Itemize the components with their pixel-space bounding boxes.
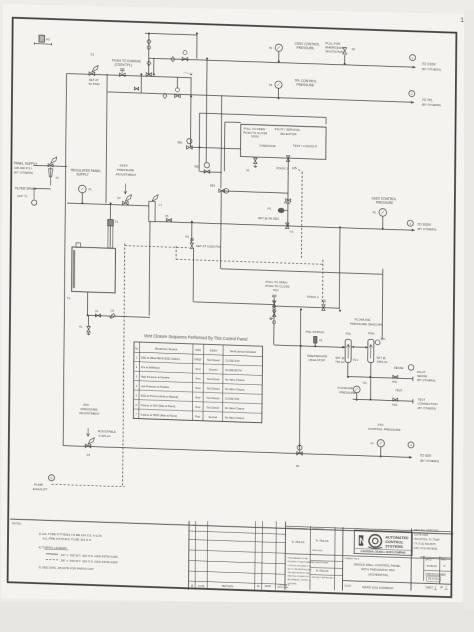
filter F1 xyxy=(108,219,114,226)
svg-text:FIRST: FIRST xyxy=(194,359,202,362)
sensor PSL xyxy=(345,339,351,362)
valve AN2 xyxy=(393,398,398,401)
gauge P1 xyxy=(78,185,86,193)
wire sensor crossover xyxy=(351,346,368,349)
svg-text:PRESSURE: PRESSURE xyxy=(296,83,314,88)
pushbutton valve S1 xyxy=(120,73,126,77)
svg-text:TX (713) 460-9575: TX (713) 460-9575 xyxy=(414,542,436,547)
svg-text:(BY OTHERS): (BY OTHERS) xyxy=(418,406,437,411)
svg-text:BY: BY xyxy=(257,586,261,588)
svg-text:(BY OTHERS): (BY OTHERS) xyxy=(417,378,436,383)
svg-text:Not Closed: Not Closed xyxy=(207,406,220,409)
wire tank outlet xyxy=(86,292,88,315)
svg-text:C2: C2 xyxy=(117,196,121,200)
svg-text:First: First xyxy=(195,378,200,381)
arrow to SSSV xyxy=(412,229,415,232)
actuator SSV pushpull xyxy=(272,295,276,299)
svg-text:(BY OTHERS): (BY OTHERS) xyxy=(417,227,436,232)
wire S2 stem xyxy=(344,55,346,64)
svg-text:First: First xyxy=(195,416,200,419)
node line3 to stack2 xyxy=(339,226,341,228)
valve S2 emergency pull xyxy=(343,48,347,55)
wire R1 branch to SSV valve xyxy=(194,302,274,305)
valve SSV open xyxy=(272,301,275,307)
svg-text:DATE: DATE xyxy=(198,585,204,588)
actuator SB2 xyxy=(204,162,209,167)
node P7 tap xyxy=(380,455,382,457)
svg-text:1400 psi: 1400 psi xyxy=(376,360,387,364)
svg-text:SENSE: SENSE xyxy=(394,366,404,370)
valve V9 xyxy=(297,452,303,456)
svg-text:TEST: TEST xyxy=(395,388,403,392)
wire sense run drop to PT1 xyxy=(381,269,384,340)
node P2 tap xyxy=(278,60,280,62)
svg-text:PSL: PSL xyxy=(346,331,352,335)
svg-text:Not Closed: Not Closed xyxy=(207,387,220,390)
selector box xyxy=(241,124,327,159)
wire outer loop left drop xyxy=(198,113,201,171)
wire filter F1 tube xyxy=(109,203,111,247)
wire stack2 drop to SSV line xyxy=(299,309,300,453)
adjustment arrow xyxy=(124,183,127,193)
svg-text:(SCHEMATIC): (SCHEMATIC) xyxy=(368,572,388,577)
valve AN1 xyxy=(393,375,398,378)
wire test line xyxy=(353,399,413,401)
svg-text:Second: Second xyxy=(209,369,218,372)
svg-text:HS: HS xyxy=(46,37,50,41)
actuator V9 xyxy=(297,445,302,450)
wire pilot line to PSL xyxy=(274,345,344,347)
svg-text:CLOSE SSV: CLOSE SSV xyxy=(225,398,240,401)
svg-text:PSH: PSH xyxy=(368,331,374,335)
svg-text:C4: C4 xyxy=(87,453,91,457)
regulator C1 xyxy=(89,72,95,76)
valve SSV close xyxy=(273,311,276,317)
svg-text:60 PSIG: 60 PSIG xyxy=(89,82,101,86)
wire PSL bottom drop xyxy=(347,362,349,377)
valve V6 xyxy=(167,218,172,221)
title block xyxy=(309,526,312,590)
svg-text:DRAWN BY:: DRAWN BY: xyxy=(312,527,325,530)
svg-text:CLOSE SSV: CLOSE SSV xyxy=(225,360,240,363)
svg-text:(BY OTHERS): (BY OTHERS) xyxy=(422,103,441,108)
wire regulated supply xyxy=(67,203,149,206)
node P3 tap xyxy=(277,97,279,99)
gauge P7 xyxy=(377,439,384,446)
svg-text:0-325 psi: 0-325 psi xyxy=(98,434,110,438)
svg-text:SB2: SB2 xyxy=(194,164,200,168)
svg-text:SYSTEMS.: SYSTEMS. xyxy=(287,583,297,585)
svg-text:SB3: SB3 xyxy=(210,183,216,187)
svg-text:C5: C5 xyxy=(111,309,115,313)
valve SB3 xyxy=(219,189,225,193)
gauge P3 xyxy=(275,81,282,88)
arrow to SSV xyxy=(409,456,412,459)
svg-text:A1: A1 xyxy=(56,175,60,179)
valve STACK1 xyxy=(286,156,289,162)
ACS logo box xyxy=(354,530,412,555)
wire supply drop to D2 actuator xyxy=(176,77,178,88)
svg-text:SSV: SSV xyxy=(195,348,201,352)
svg-text:700 psi: 700 psi xyxy=(335,360,345,364)
svg-text:6/15/10: 6/15/10 xyxy=(427,564,437,568)
svg-text:CLOSE BOTH: CLOSE BOTH xyxy=(225,369,242,373)
svg-text:No.: No. xyxy=(135,348,139,350)
valve on supply xyxy=(146,73,152,77)
wire line1 to CSSV xyxy=(149,58,415,67)
wire SSV pushpull drop xyxy=(273,299,275,345)
svg-text:SSSV: SSSV xyxy=(210,349,218,353)
svg-text:1: 1 xyxy=(445,586,447,590)
svg-text:INSERVICE: INSERVICE xyxy=(260,144,276,149)
timer H1 xyxy=(278,208,285,213)
wire line3 drop to stack2 line xyxy=(338,227,341,309)
svg-text:A2: A2 xyxy=(79,324,83,328)
svg-text:R. PELAS: R. PELAS xyxy=(292,540,305,544)
revision strip xyxy=(187,521,190,590)
bubble pilot sense xyxy=(408,364,414,370)
wire SB3 drop to sense run xyxy=(220,191,223,269)
svg-text:FAX (713) 460-9638: FAX (713) 460-9638 xyxy=(414,546,438,551)
wire SSV control line xyxy=(64,446,412,458)
svg-text:REV.: REV. xyxy=(441,558,447,561)
wire lineT drop xyxy=(196,33,198,58)
wire supply drop to SB1 line xyxy=(189,77,192,147)
svg-text:TC1: TC1 xyxy=(353,358,359,362)
svg-text:REVISION: REVISION xyxy=(222,586,233,588)
svg-text:SG: SG xyxy=(363,381,367,385)
svg-text:R. PELAS: R. PELAS xyxy=(316,539,329,543)
indicator PSL status xyxy=(314,336,317,343)
relief valve R1 xyxy=(190,243,193,249)
check CO2 xyxy=(163,93,167,98)
connector bubble SSV xyxy=(408,442,414,448)
svg-text:1: 1 xyxy=(460,17,464,24)
wire stack1 drop to line3 xyxy=(287,157,290,226)
svg-text:SSSV: SSSV xyxy=(251,134,259,138)
vent xyxy=(269,317,273,320)
wire PSH bottom drop xyxy=(370,362,372,399)
svg-text:S5: S5 xyxy=(352,47,356,51)
valve D2 xyxy=(175,94,181,98)
vent valve A1 xyxy=(254,158,257,164)
svg-text:ADJUSTMENT: ADJUSTMENT xyxy=(79,411,100,416)
wire L1 drain return xyxy=(148,222,151,316)
svg-text:S4: S4 xyxy=(296,464,300,468)
connector bubble SSSV xyxy=(407,220,413,226)
wire line1 drop xyxy=(153,58,155,74)
regulator C2 xyxy=(122,201,128,205)
svg-text:STACK 1: STACK 1 xyxy=(276,166,288,170)
node S2 tap xyxy=(344,63,346,65)
wire pilot sense line xyxy=(348,377,413,379)
wire wellhead sense run xyxy=(221,269,383,274)
wire R1 stem xyxy=(191,222,193,243)
wire SB3 branch xyxy=(222,191,289,193)
wire inner loop top xyxy=(225,121,241,124)
valve D1 xyxy=(182,57,188,61)
wire PSL-status stem xyxy=(314,343,316,346)
wire panel inlet xyxy=(33,165,67,166)
wire A2 vent stem xyxy=(87,315,89,326)
svg-text:C1: C1 xyxy=(91,53,95,57)
wire line-T header xyxy=(145,33,197,35)
svg-text:SB1: SB1 xyxy=(177,140,183,144)
wire gauge P5 stem xyxy=(382,216,384,228)
wire gauge P7 stem xyxy=(380,447,382,456)
wire gauge P3 stem xyxy=(277,88,279,98)
svg-text:NOTES:: NOTES: xyxy=(12,521,22,525)
svg-text:First: First xyxy=(196,368,201,371)
svg-text:TEST / LOCKOUT: TEST / LOCKOUT xyxy=(293,144,318,149)
svg-text:(BY OTHERS): (BY OTHERS) xyxy=(420,458,439,463)
wire supply header xyxy=(67,73,191,77)
svg-text:SUPPLY: SUPPLY xyxy=(76,173,89,177)
connector bubble CSSV xyxy=(410,55,416,61)
sequence table xyxy=(133,342,262,423)
svg-text:HL: HL xyxy=(319,338,323,342)
tank fill cap xyxy=(76,243,80,248)
valve SB1 xyxy=(187,146,193,150)
svg-text:SSV: SSV xyxy=(377,423,384,427)
check CO4 xyxy=(147,61,151,66)
svg-text:(CSSV/TPL): (CSSV/TPL) xyxy=(115,63,133,68)
wire outer loop top xyxy=(200,113,327,117)
wire line1 drop to SB2 xyxy=(205,59,208,163)
svg-text:ECN APPROVED: ECN APPROVED xyxy=(312,561,329,565)
svg-text:First: First xyxy=(195,397,200,400)
wire SB2 branch xyxy=(200,171,222,174)
svg-text:OF: OF xyxy=(440,586,444,589)
svg-text:CHECKED:: CHECKED: xyxy=(312,550,324,552)
svg-text:R1: R1 xyxy=(186,235,190,239)
bottom band top rule xyxy=(10,519,453,534)
regulator C4 xyxy=(86,428,89,436)
svg-text:STACK 2: STACK 2 xyxy=(307,294,319,298)
svg-text:HIGH-STOP: HIGH-STOP xyxy=(308,358,325,363)
svg-text:T1: T1 xyxy=(67,296,71,300)
svg-text:V6: V6 xyxy=(165,214,169,218)
dashed drop to stack2 xyxy=(321,260,323,304)
svg-text:PRESSURE: PRESSURE xyxy=(339,390,355,395)
svg-text:24240: 24240 xyxy=(264,586,271,588)
wire charge vert B xyxy=(148,33,150,74)
node P5 tap xyxy=(382,228,384,230)
arrow to CSSV xyxy=(413,66,416,69)
tank T1 xyxy=(72,247,116,293)
valve V1 xyxy=(95,314,100,317)
svg-text:First: First xyxy=(195,406,200,409)
valve V3 xyxy=(285,223,288,229)
svg-text:PSL STATUS: PSL STATUS xyxy=(306,330,324,335)
svg-text:V3: V3 xyxy=(290,230,294,234)
pump exhaust bubble xyxy=(49,475,55,481)
arrow to TPL xyxy=(411,101,414,104)
wire line2 drop to SB3 xyxy=(220,95,223,188)
dashed pilot line selector to stack2 xyxy=(295,167,302,171)
svg-text:EXHAUST: EXHAUST xyxy=(33,487,48,491)
wire inner loop drop xyxy=(223,122,225,171)
svg-text:SUITE #100: SUITE #100 xyxy=(414,532,429,536)
svg-text:38,075C: 38,075C xyxy=(428,577,440,581)
valve J2 xyxy=(134,87,138,90)
wire outer loop right corner xyxy=(325,118,327,125)
wire R1 extension drop xyxy=(192,248,194,302)
wire gauge P6 stem xyxy=(356,393,358,400)
svg-text:A1: A1 xyxy=(246,168,250,172)
connector bubble TPL xyxy=(409,90,415,96)
node R1 tap xyxy=(191,221,193,223)
svg-text:PT1: PT1 xyxy=(381,337,386,341)
svg-text:F1: F1 xyxy=(115,220,119,224)
svg-text:First: First xyxy=(195,387,200,390)
check CO1 xyxy=(147,39,151,44)
bubble PT1 xyxy=(375,340,380,345)
svg-text:Second: Second xyxy=(209,416,218,419)
svg-text:V1: V1 xyxy=(95,309,99,313)
node lineT corner xyxy=(196,32,198,34)
svg-text:SHEET: SHEET xyxy=(425,586,433,589)
wire gauge P1 stem xyxy=(81,193,83,204)
svg-text:N: N xyxy=(359,537,365,546)
svg-text:AN1: AN1 xyxy=(392,380,398,384)
svg-text:SSV: SSV xyxy=(273,288,279,292)
svg-text:PRESSURE: PRESSURE xyxy=(376,201,394,206)
valve SB2 xyxy=(204,170,210,174)
svg-text:Not Closed: Not Closed xyxy=(207,397,220,400)
gauge P6 xyxy=(353,386,360,393)
HS station symbol xyxy=(39,35,44,42)
dashed line to R1 xyxy=(125,246,190,248)
wire SB1 to selector xyxy=(191,147,241,149)
valve on stack1 drop xyxy=(286,199,291,202)
scale bar xyxy=(34,43,51,46)
dashed cross line xyxy=(176,259,323,264)
sensor PSH xyxy=(368,339,374,362)
svg-text:APPROVAL: APPROVAL xyxy=(277,586,289,589)
svg-text:S1: S1 xyxy=(292,166,296,170)
inlet filter-regulator xyxy=(48,164,53,167)
check CO3 xyxy=(171,57,175,62)
vent valve A2 xyxy=(87,326,90,332)
wire supply drop to regulated xyxy=(106,74,107,203)
svg-text:Not Closed: Not Closed xyxy=(207,378,220,381)
svg-text:CUST:: CUST: xyxy=(345,584,352,587)
svg-text:FILTER DRAIN: FILTER DRAIN xyxy=(15,186,37,191)
gauge P2 xyxy=(275,44,282,51)
svg-text:PRESSURE: PRESSURE xyxy=(296,46,314,51)
dashed pump exhaust line xyxy=(51,484,124,486)
svg-text:H1: H1 xyxy=(267,206,271,210)
wire tank drain xyxy=(87,315,150,317)
svg-text:Fire at Wellhead: Fire at Wellhead xyxy=(141,366,160,370)
lubricator L1 xyxy=(149,201,155,221)
svg-text:R. PELAS: R. PELAS xyxy=(316,569,329,573)
wire filter drain xyxy=(33,187,50,190)
dashed line R1 to C4/pump xyxy=(123,244,125,486)
svg-text:SYSTEMS: SYSTEMS xyxy=(385,544,403,549)
wire line2 to TPL xyxy=(108,92,414,102)
wire line3 to SSSV xyxy=(155,221,414,230)
svg-text:ADJUSTMENT: ADJUSTMENT xyxy=(116,172,137,177)
wire left rail xyxy=(63,73,66,445)
svg-text:(BY OTHERS): (BY OTHERS) xyxy=(14,170,33,175)
arrow into PSL xyxy=(342,346,345,349)
gauge P5 xyxy=(379,208,387,216)
svg-text:SELECTOR: SELECTOR xyxy=(280,132,297,137)
svg-text:DATE:: DATE: xyxy=(425,558,432,561)
svg-text:TIME: TIME xyxy=(284,201,291,205)
svg-text:Shutdown Source: Shutdown Source xyxy=(155,347,178,352)
svg-text:(1/4" T): (1/4" T) xyxy=(17,194,27,198)
svg-text:1: 1 xyxy=(434,586,436,590)
svg-text:SHUTDOWN: SHUTDOWN xyxy=(325,49,343,54)
svg-text:DRAWN: PELZ: DRAWN: PELZ xyxy=(344,557,360,561)
svg-text:L1: L1 xyxy=(159,203,163,207)
svg-text:SET AT 3,000 PSI: SET AT 3,000 PSI xyxy=(196,244,221,249)
connector bubble drain xyxy=(32,200,37,205)
actuator SB1 xyxy=(187,139,192,144)
svg-text:Not Closed: Not Closed xyxy=(207,359,220,362)
faint marks xyxy=(184,72,193,74)
svg-text:SET @ 45 SEC: SET @ 45 SEC xyxy=(258,216,280,221)
check C5 xyxy=(110,314,116,319)
wire stack2 line xyxy=(274,306,340,308)
svg-text:(BY OTHERS): (BY OTHERS) xyxy=(422,67,441,72)
valve STACK2 xyxy=(322,305,325,311)
svg-text:D: D xyxy=(51,476,53,480)
wire charge vert A xyxy=(140,74,142,93)
svg-text:AN2: AN2 xyxy=(392,402,398,406)
dashed drop xyxy=(175,246,177,259)
wire gauge P2 stem xyxy=(278,51,280,61)
